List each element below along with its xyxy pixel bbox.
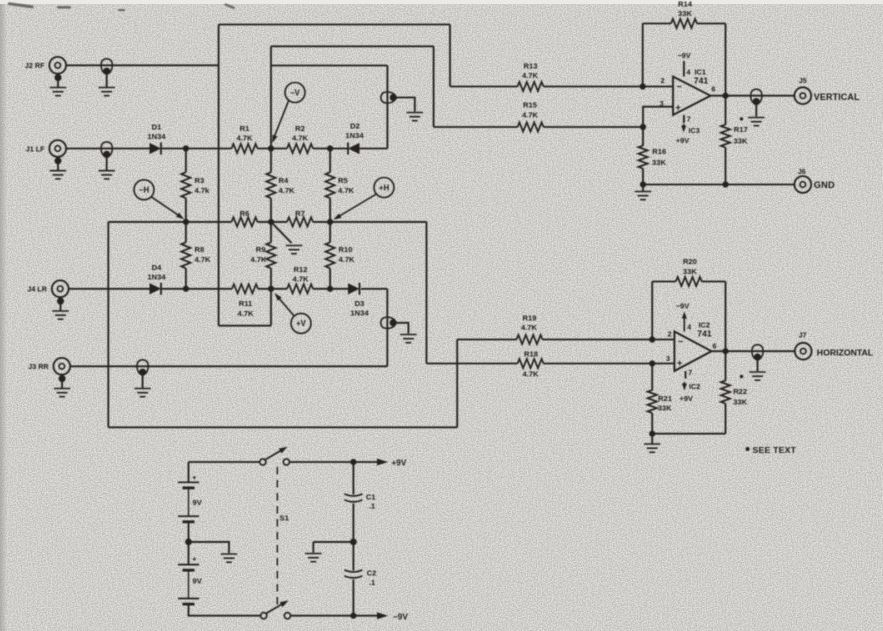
svg-text:1N34: 1N34 bbox=[147, 132, 166, 141]
wire row2 left segment bbox=[108, 221, 231, 223]
svg-text:R9: R9 bbox=[256, 245, 266, 254]
SEE TEXT bullet bbox=[746, 447, 750, 451]
J2 ground bbox=[50, 88, 66, 96]
wire -H to R8 bbox=[185, 222, 187, 242]
wire IC2 pin3 bbox=[652, 363, 674, 365]
svg-text:S1: S1 bbox=[280, 513, 290, 522]
svg-text:4.7k: 4.7k bbox=[195, 186, 211, 195]
svg-text:2: 2 bbox=[668, 332, 672, 339]
wire box1 left edge bbox=[218, 25, 220, 326]
wire psu top rail left bbox=[189, 461, 260, 463]
switch S1 top lever bbox=[265, 449, 284, 460]
arrow +V head bbox=[273, 291, 282, 300]
wire -V top horizontal bbox=[271, 45, 434, 47]
svg-text:R6: R6 bbox=[240, 209, 250, 218]
resistor R21 bbox=[648, 390, 657, 413]
resistor R14 bbox=[671, 19, 697, 28]
+9V arrow bbox=[377, 459, 388, 466]
wire psu bottom rail right bbox=[291, 615, 354, 617]
J4 ground lead bbox=[60, 301, 62, 311]
resistor R20 bbox=[676, 277, 702, 286]
svg-text:+: + bbox=[676, 102, 681, 112]
arrow -V line bbox=[274, 100, 289, 138]
svg-text:J3 RR: J3 RR bbox=[28, 362, 49, 371]
wire J1 to D1 bbox=[66, 148, 149, 150]
wire box2 right riser bbox=[456, 340, 458, 428]
wire IC2 pin2 bbox=[652, 339, 674, 341]
wire IC2 output bbox=[712, 350, 795, 352]
wire J4 to D4 bbox=[69, 288, 150, 290]
diode D1 bbox=[150, 143, 162, 155]
svg-text:+9V: +9V bbox=[680, 394, 693, 403]
svg-text:R12: R12 bbox=[294, 265, 308, 274]
IC1 rail ground bbox=[635, 192, 651, 200]
J3 shield dot bbox=[59, 375, 66, 382]
node +V label circle bbox=[291, 313, 311, 333]
node -V label circle bbox=[285, 83, 305, 103]
op-amp IC2 bbox=[674, 332, 711, 372]
wire output to R22 bbox=[725, 351, 727, 381]
op-amp IC1 bbox=[673, 77, 711, 116]
svg-text:4.7K: 4.7K bbox=[521, 323, 538, 332]
capacitor C2 bbox=[344, 570, 362, 578]
shield D2 riser bbox=[381, 92, 397, 103]
node -H label circle bbox=[134, 180, 154, 200]
wire D3 to riser bbox=[361, 288, 387, 290]
wire +H to R10 bbox=[329, 222, 331, 242]
capacitor C1 bbox=[344, 494, 362, 502]
svg-text:4.7K: 4.7K bbox=[522, 71, 539, 80]
svg-text:4.7K: 4.7K bbox=[279, 186, 296, 195]
J3 ground bbox=[54, 389, 70, 397]
svg-text:7: 7 bbox=[687, 116, 691, 123]
svg-text:R16: R16 bbox=[652, 147, 666, 156]
wire box1 bottom edge bbox=[219, 325, 271, 327]
wire D3 shield to ground bbox=[394, 323, 409, 334]
svg-text:4.7K: 4.7K bbox=[250, 255, 267, 264]
svg-text:33K: 33K bbox=[733, 398, 747, 407]
node +H label circle bbox=[374, 178, 394, 198]
IC2 output junction bbox=[722, 348, 728, 354]
wire output to R17 bbox=[725, 96, 727, 125]
row2 ground bbox=[286, 246, 302, 254]
svg-text:R15: R15 bbox=[523, 100, 538, 109]
wire -V riser down bbox=[433, 46, 435, 127]
svg-text:R2: R2 bbox=[295, 124, 305, 133]
connector J1 bbox=[49, 140, 66, 157]
connector J7 bbox=[795, 343, 812, 360]
wire -V to R4 bbox=[270, 149, 272, 173]
J2 shield dot bbox=[55, 74, 62, 81]
svg-text:C1: C1 bbox=[366, 492, 375, 501]
svg-text:−H: −H bbox=[139, 186, 150, 195]
wire R21 to rail bbox=[651, 413, 653, 434]
svg-text:R18: R18 bbox=[524, 349, 538, 358]
svg-text:+9V: +9V bbox=[392, 459, 407, 468]
switch S1 bottom right contact bbox=[284, 613, 290, 619]
resistor R8 bbox=[181, 242, 190, 268]
J7 shield ground lead bbox=[757, 360, 759, 371]
svg-text:4: 4 bbox=[687, 70, 691, 77]
switch S1 bottom lever bbox=[266, 603, 285, 614]
IC1 pin2 junction bbox=[640, 83, 646, 89]
svg-text:+9V: +9V bbox=[676, 136, 689, 145]
svg-text:D2: D2 bbox=[350, 121, 360, 130]
diode D4 bbox=[150, 283, 162, 295]
wire R10 to row3 bbox=[329, 268, 331, 289]
J1 ground bbox=[50, 171, 66, 179]
J5 shield ground lead bbox=[755, 105, 757, 117]
wire to R14 bbox=[643, 23, 671, 25]
svg-text:4: 4 bbox=[687, 325, 691, 332]
connector J3 bbox=[53, 358, 70, 375]
svg-text:R19: R19 bbox=[523, 313, 537, 322]
svg-text:6: 6 bbox=[713, 344, 717, 351]
diode D2 bbox=[348, 143, 360, 155]
wire box1 to node +V bbox=[270, 289, 272, 326]
shield J2 ground lead bbox=[106, 75, 108, 88]
wire box2 bottom edge bbox=[108, 426, 457, 428]
svg-text:R17: R17 bbox=[734, 125, 748, 134]
svg-text:R20: R20 bbox=[683, 257, 697, 266]
wire R3 to node -H bbox=[185, 198, 187, 222]
svg-text:33K: 33K bbox=[652, 158, 666, 167]
resistor R22 bbox=[721, 381, 730, 404]
IC1 pin4 lead bbox=[683, 61, 685, 77]
resistor R10 bbox=[326, 242, 335, 268]
D3 shield ground bbox=[400, 335, 416, 343]
svg-text:9V: 9V bbox=[193, 498, 203, 507]
row2 center junction bbox=[268, 219, 274, 225]
svg-text:+: + bbox=[677, 358, 682, 368]
resistor R9 bbox=[266, 242, 275, 268]
svg-text:+H: +H bbox=[379, 183, 390, 192]
resistor R16 bbox=[638, 146, 647, 169]
resistor R19 bbox=[517, 335, 543, 344]
svg-text:4.7K: 4.7K bbox=[195, 255, 212, 264]
wire R4 to row2 bbox=[270, 198, 272, 222]
svg-text:J2 RF: J2 RF bbox=[25, 61, 45, 70]
svg-text:R3: R3 bbox=[195, 176, 205, 185]
caps ground lead bbox=[312, 542, 314, 553]
shield J3 ground bbox=[134, 389, 150, 397]
wire R22 to rail bbox=[725, 404, 727, 434]
switch S1 dashed link bbox=[276, 467, 278, 609]
connector J5 bbox=[794, 87, 811, 104]
wire -V column up bbox=[270, 46, 272, 148]
wire C1 bottom lead bbox=[352, 504, 354, 542]
svg-text:J6: J6 bbox=[798, 169, 806, 176]
wire box2 left edge bbox=[107, 222, 109, 427]
svg-text:7: 7 bbox=[688, 370, 692, 377]
wire to R15 bbox=[434, 126, 518, 128]
J4 shield dot bbox=[57, 298, 64, 305]
shield J1 ground bbox=[99, 171, 115, 179]
svg-text:+: + bbox=[192, 475, 196, 482]
svg-text:J5: J5 bbox=[799, 78, 807, 85]
svg-text:2: 2 bbox=[661, 78, 665, 85]
wire R1 to R2 bbox=[258, 148, 288, 150]
svg-text:GND: GND bbox=[814, 180, 835, 190]
svg-text:1N34: 1N34 bbox=[345, 131, 364, 140]
svg-text:4.7K: 4.7K bbox=[338, 186, 355, 195]
wire center tap to ground bbox=[189, 542, 230, 553]
svg-text:1N34: 1N34 bbox=[147, 272, 166, 281]
wire R7 to right riser bbox=[313, 221, 427, 223]
J4 ground bbox=[52, 311, 68, 319]
wire R8 to row3 bbox=[185, 268, 187, 289]
svg-text:741: 741 bbox=[697, 328, 712, 338]
shield D3 riser bbox=[381, 317, 397, 328]
shield J5 line bbox=[751, 89, 762, 105]
svg-text:−9V: −9V bbox=[677, 51, 690, 60]
battery ground bbox=[221, 554, 237, 562]
wire IC2 feedback left bbox=[651, 282, 653, 340]
wire D2 riser bbox=[386, 66, 388, 149]
rail junction R17 bbox=[722, 181, 728, 187]
wire node B to R5 bbox=[329, 149, 331, 173]
J5 shield ground bbox=[748, 118, 764, 126]
node -V junction bbox=[268, 145, 274, 151]
wire IC2 feedback right riser bbox=[725, 282, 727, 352]
wire R16 to rail bbox=[642, 169, 644, 185]
IC2 supply arrow up bbox=[683, 318, 685, 332]
wire to R18 bbox=[427, 363, 518, 365]
IC2 pin2 junction bbox=[649, 336, 655, 342]
wire D2 shield to ground bbox=[394, 98, 415, 112]
svg-text:IC2: IC2 bbox=[689, 382, 700, 391]
IC1 rail ground lead bbox=[642, 185, 644, 192]
connector J6 bbox=[794, 176, 811, 193]
shield J1 ground lead bbox=[106, 158, 108, 171]
battery center tap junction bbox=[185, 539, 192, 546]
rail junction R16 bbox=[640, 181, 646, 187]
node -H junction bbox=[183, 219, 189, 225]
node +H junction bbox=[327, 219, 333, 225]
resistor R3 bbox=[181, 172, 190, 198]
wire R12 to D3 bbox=[313, 288, 348, 290]
wire R15 to IC1 pin3 node bbox=[544, 126, 644, 128]
resistor R7 bbox=[287, 217, 313, 226]
wire R9 to node +V bbox=[270, 268, 272, 289]
resistor R15 bbox=[518, 122, 544, 131]
J2 ground lead bbox=[57, 78, 59, 88]
wire J3 row bbox=[70, 365, 387, 367]
svg-text:4.7K: 4.7K bbox=[237, 309, 254, 318]
resistor R17 bbox=[721, 125, 730, 148]
svg-text:4.7K: 4.7K bbox=[339, 255, 356, 264]
IC2 rail ground bbox=[644, 444, 660, 452]
wire D2 top horizontal bbox=[271, 65, 387, 67]
svg-text:4.7K: 4.7K bbox=[236, 133, 253, 142]
J1 shield dot bbox=[55, 157, 62, 164]
svg-text:R10: R10 bbox=[339, 245, 353, 254]
wire R19 to IC2 pin2 node bbox=[543, 339, 653, 341]
IC2 pin3 junction bbox=[649, 360, 655, 366]
wire to R13 bbox=[450, 86, 518, 88]
wire to R19 bbox=[457, 339, 516, 341]
wire B2 to bottom rail bbox=[189, 604, 261, 616]
caps ground bbox=[305, 554, 321, 562]
node row3-left junction bbox=[183, 286, 189, 292]
svg-text:33K: 33K bbox=[734, 136, 748, 145]
svg-text:1N34: 1N34 bbox=[350, 308, 369, 317]
svg-text:3: 3 bbox=[666, 356, 670, 363]
wire +H riser down bbox=[426, 222, 428, 364]
svg-text:4.7K: 4.7K bbox=[522, 110, 539, 119]
wire center tap to B2 bbox=[188, 542, 190, 565]
arrow -V head bbox=[270, 135, 278, 144]
resistor R2 bbox=[287, 144, 313, 153]
wire D4 to R11 bbox=[161, 288, 232, 290]
wire R5 to node +H bbox=[329, 198, 331, 222]
battery B2 9V bbox=[178, 565, 199, 605]
svg-text:.1: .1 bbox=[369, 578, 375, 587]
svg-text:R11: R11 bbox=[239, 299, 253, 308]
svg-text:741: 741 bbox=[694, 75, 709, 85]
svg-text:R14: R14 bbox=[678, 0, 693, 8]
svg-text:33K: 33K bbox=[678, 9, 692, 18]
wire row2 center ground stub bbox=[271, 222, 292, 243]
wire to -9V arrow bbox=[353, 615, 377, 617]
wire D1 to R1 bbox=[161, 148, 232, 150]
svg-text:R21: R21 bbox=[658, 394, 673, 403]
svg-text:VERTICAL: VERTICAL bbox=[814, 92, 860, 102]
wire R13 to IC1 pin2 bbox=[544, 86, 643, 88]
shield J3 ground lead bbox=[142, 376, 144, 389]
svg-text:4.7K: 4.7K bbox=[292, 133, 309, 142]
svg-text:−9V: −9V bbox=[676, 301, 689, 310]
node row3-right junction bbox=[327, 286, 333, 292]
battery B1 9V bbox=[178, 482, 199, 522]
svg-text:D1: D1 bbox=[152, 123, 162, 132]
IC1 pin7 lead bbox=[683, 115, 685, 123]
wire node A to R3 bbox=[185, 149, 187, 173]
IC2 pin7 lead bbox=[685, 371, 687, 379]
IC1 output junction bbox=[722, 93, 728, 99]
shield J2 line bbox=[101, 59, 112, 75]
wire R6 to R7 bbox=[258, 221, 288, 223]
wire box1 top edge bbox=[219, 24, 450, 26]
svg-text:J4 LR: J4 LR bbox=[27, 285, 47, 294]
wire B1 to center tap bbox=[188, 522, 190, 542]
wire IC1 feedback right riser bbox=[725, 24, 727, 96]
svg-text:+: + bbox=[192, 557, 196, 564]
svg-text:+V: +V bbox=[296, 319, 307, 328]
wire C2 bottom lead bbox=[352, 580, 354, 616]
svg-text:−: − bbox=[677, 81, 682, 91]
asterisk R22 bbox=[740, 375, 743, 378]
svg-text:IC3: IC3 bbox=[689, 126, 700, 135]
arrow -H line bbox=[151, 197, 181, 217]
wire pin3 node to R21 bbox=[651, 364, 653, 391]
svg-text:R4: R4 bbox=[279, 176, 289, 185]
wire pin3 node to R16 bbox=[642, 127, 644, 146]
svg-text:J1 LF: J1 LF bbox=[26, 144, 45, 153]
svg-text:SEE TEXT: SEE TEXT bbox=[753, 445, 797, 455]
node B junction bbox=[327, 145, 333, 151]
-9V arrow bbox=[377, 612, 388, 619]
arrow +H head bbox=[332, 213, 342, 222]
junction C1 top bbox=[350, 459, 356, 465]
J7 shield ground bbox=[749, 372, 765, 380]
resistor R12 bbox=[287, 284, 313, 293]
diode D3 bbox=[348, 283, 360, 295]
resistor R6 bbox=[232, 217, 258, 226]
IC2 rail junction bbox=[649, 431, 655, 437]
wire J2 to matrix box bbox=[66, 64, 219, 66]
wire IC2 ground rail bbox=[652, 433, 725, 435]
wire C2 top lead bbox=[352, 542, 354, 571]
wire rail to battery B1 bbox=[188, 462, 190, 482]
arrow +V line bbox=[278, 297, 295, 317]
shield J1 line bbox=[101, 142, 112, 158]
wire R18 to IC2 pin3 node bbox=[544, 363, 653, 365]
wire IC1 pin2 bbox=[643, 86, 673, 88]
IC2 supply arrow down bbox=[683, 382, 685, 387]
wire to R20 bbox=[652, 281, 676, 283]
wire midpoint to ground bbox=[313, 541, 353, 543]
arrow +H line bbox=[337, 194, 376, 218]
svg-text:.1: .1 bbox=[369, 501, 375, 510]
svg-text:33K: 33K bbox=[658, 404, 672, 413]
J1 ground lead bbox=[57, 161, 59, 171]
resistor R18 bbox=[518, 359, 544, 368]
wire IC1 pin3 bbox=[643, 107, 673, 127]
switch S1 top left contact bbox=[260, 459, 266, 465]
resistor R4 bbox=[266, 172, 275, 198]
resistor R11 bbox=[232, 284, 258, 293]
wire R11 to R12 bbox=[258, 288, 287, 290]
wire R20 to output riser bbox=[702, 281, 726, 283]
svg-text:9V: 9V bbox=[193, 577, 203, 586]
switch S1 bottom left contact bbox=[261, 613, 267, 619]
node A junction bbox=[183, 145, 189, 151]
wire D2 to riser bbox=[360, 148, 388, 150]
asterisk R17 bbox=[740, 117, 743, 120]
IC1 pin3 junction bbox=[640, 124, 646, 130]
svg-text:33K: 33K bbox=[683, 267, 697, 276]
svg-text:3: 3 bbox=[660, 101, 664, 108]
svg-text:R8: R8 bbox=[195, 245, 205, 254]
connector J2 bbox=[49, 57, 66, 74]
node +V junction bbox=[268, 286, 274, 292]
svg-text:4.7K: 4.7K bbox=[522, 370, 539, 379]
svg-text:D4: D4 bbox=[152, 263, 162, 272]
junction C2 bottom bbox=[350, 613, 356, 619]
resistor R1 bbox=[232, 144, 258, 153]
wire box1 right riser bbox=[449, 25, 451, 87]
svg-text:R22: R22 bbox=[733, 387, 747, 396]
wire D3 riser bbox=[386, 289, 388, 367]
D2 shield ground bbox=[407, 113, 423, 121]
junction caps midpoint bbox=[350, 539, 357, 546]
wire R2 to D2 bbox=[313, 148, 348, 150]
shield J2 ground bbox=[99, 88, 115, 96]
svg-text:J7: J7 bbox=[799, 333, 807, 340]
connector J4 bbox=[52, 280, 69, 297]
wire to +9V arrow bbox=[353, 461, 377, 463]
wire IC1 ground rail bbox=[643, 184, 794, 186]
J3 ground lead bbox=[61, 379, 63, 389]
IC1 supply arrow bbox=[683, 124, 685, 129]
svg-text:R1: R1 bbox=[240, 124, 250, 133]
resistor R13 bbox=[518, 82, 544, 91]
svg-text:4.7K: 4.7K bbox=[292, 274, 309, 283]
wire R14 to output riser bbox=[697, 23, 726, 25]
wire IC1 output bbox=[711, 95, 795, 97]
svg-text:R13: R13 bbox=[524, 61, 538, 70]
